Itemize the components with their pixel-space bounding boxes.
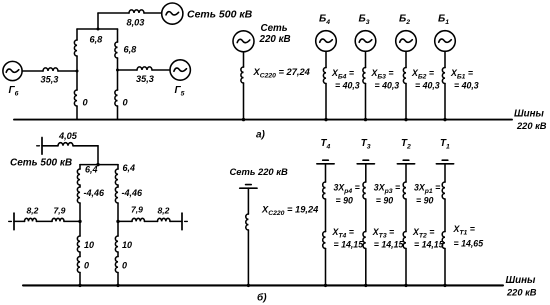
svg-text:0: 0 — [122, 261, 127, 271]
svg-text:7,9: 7,9 — [131, 205, 143, 215]
svg-text:35,3: 35,3 — [136, 74, 154, 84]
svg-text:= 40,3: = 40,3 — [335, 81, 360, 91]
svg-text:6,8: 6,8 — [124, 45, 138, 55]
svg-text:Сеть: Сеть — [261, 23, 288, 34]
svg-text:7,9: 7,9 — [54, 206, 66, 216]
svg-text:10: 10 — [84, 240, 94, 250]
svg-text:= 14,15: = 14,15 — [414, 240, 444, 250]
svg-text:4,05: 4,05 — [58, 131, 78, 141]
svg-text:0: 0 — [84, 261, 89, 271]
svg-text:-4,46: -4,46 — [122, 188, 144, 198]
svg-text:= 14,15: = 14,15 — [334, 240, 364, 250]
svg-text:а): а) — [256, 130, 266, 141]
svg-text:10: 10 — [122, 240, 132, 250]
svg-text:= 14,15: = 14,15 — [374, 240, 404, 250]
svg-text:= 40,3: = 40,3 — [415, 81, 440, 91]
svg-text:Сеть 500 кВ: Сеть 500 кВ — [10, 158, 72, 169]
svg-text:Сеть 500 кВ: Сеть 500 кВ — [187, 9, 253, 21]
svg-text:6,8: 6,8 — [90, 35, 104, 45]
svg-text:-4,46: -4,46 — [84, 188, 106, 198]
svg-text:220 кВ: 220 кВ — [259, 34, 291, 45]
svg-text:0: 0 — [123, 98, 129, 108]
svg-text:8,03: 8,03 — [127, 18, 145, 28]
svg-text:Шины: Шины — [514, 109, 544, 120]
svg-text:6,4: 6,4 — [85, 165, 98, 175]
svg-text:220 кВ: 220 кВ — [516, 121, 547, 131]
svg-text:Шины: Шины — [506, 275, 536, 286]
svg-text:8,2: 8,2 — [158, 206, 170, 216]
svg-text:= 40,3: = 40,3 — [454, 81, 479, 91]
svg-text:= 90: = 90 — [336, 196, 353, 206]
svg-text:0: 0 — [83, 98, 89, 108]
svg-text:6,4: 6,4 — [123, 163, 136, 173]
svg-text:= 90: = 90 — [376, 196, 393, 206]
svg-text:Сеть 220 кВ: Сеть 220 кВ — [230, 166, 288, 177]
svg-text:= 14,65: = 14,65 — [454, 239, 484, 249]
svg-text:220 кВ: 220 кВ — [506, 288, 537, 298]
svg-text:= 40,3: = 40,3 — [375, 81, 400, 91]
svg-text:= 90: = 90 — [416, 196, 433, 206]
svg-text:б): б) — [257, 292, 267, 304]
svg-text:8,2: 8,2 — [27, 206, 39, 216]
svg-text:35,3: 35,3 — [41, 75, 59, 85]
